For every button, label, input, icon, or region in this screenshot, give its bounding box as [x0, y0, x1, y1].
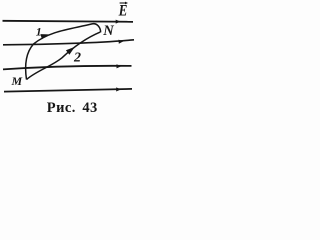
svg-text:E: E [118, 3, 128, 20]
field line 1 arrowhead [116, 20, 121, 24]
field line 2 [3, 40, 134, 45]
vector arrow over E [120, 2, 126, 4]
field line 2 arrowhead [119, 40, 124, 44]
svg-text:1: 1 [36, 25, 42, 39]
field line 4 [4, 89, 132, 92]
svg-text:2: 2 [73, 51, 81, 66]
field line 4 arrowhead [116, 87, 121, 91]
contour path 1 arrowhead [40, 34, 48, 39]
svg-text:Рис. 43: Рис. 43 [47, 100, 98, 116]
field line 1 [3, 21, 134, 22]
field line 3 [3, 66, 132, 70]
contour path 2 arrowhead [66, 47, 75, 55]
contour path 1 (curved path M to N) [26, 24, 101, 80]
background [0, 0, 144, 119]
contour path 2 (chord M to N) [27, 32, 101, 79]
field line 3 arrowhead [117, 64, 122, 68]
svg-text:N: N [102, 23, 114, 39]
svg-text:M: M [11, 74, 23, 88]
